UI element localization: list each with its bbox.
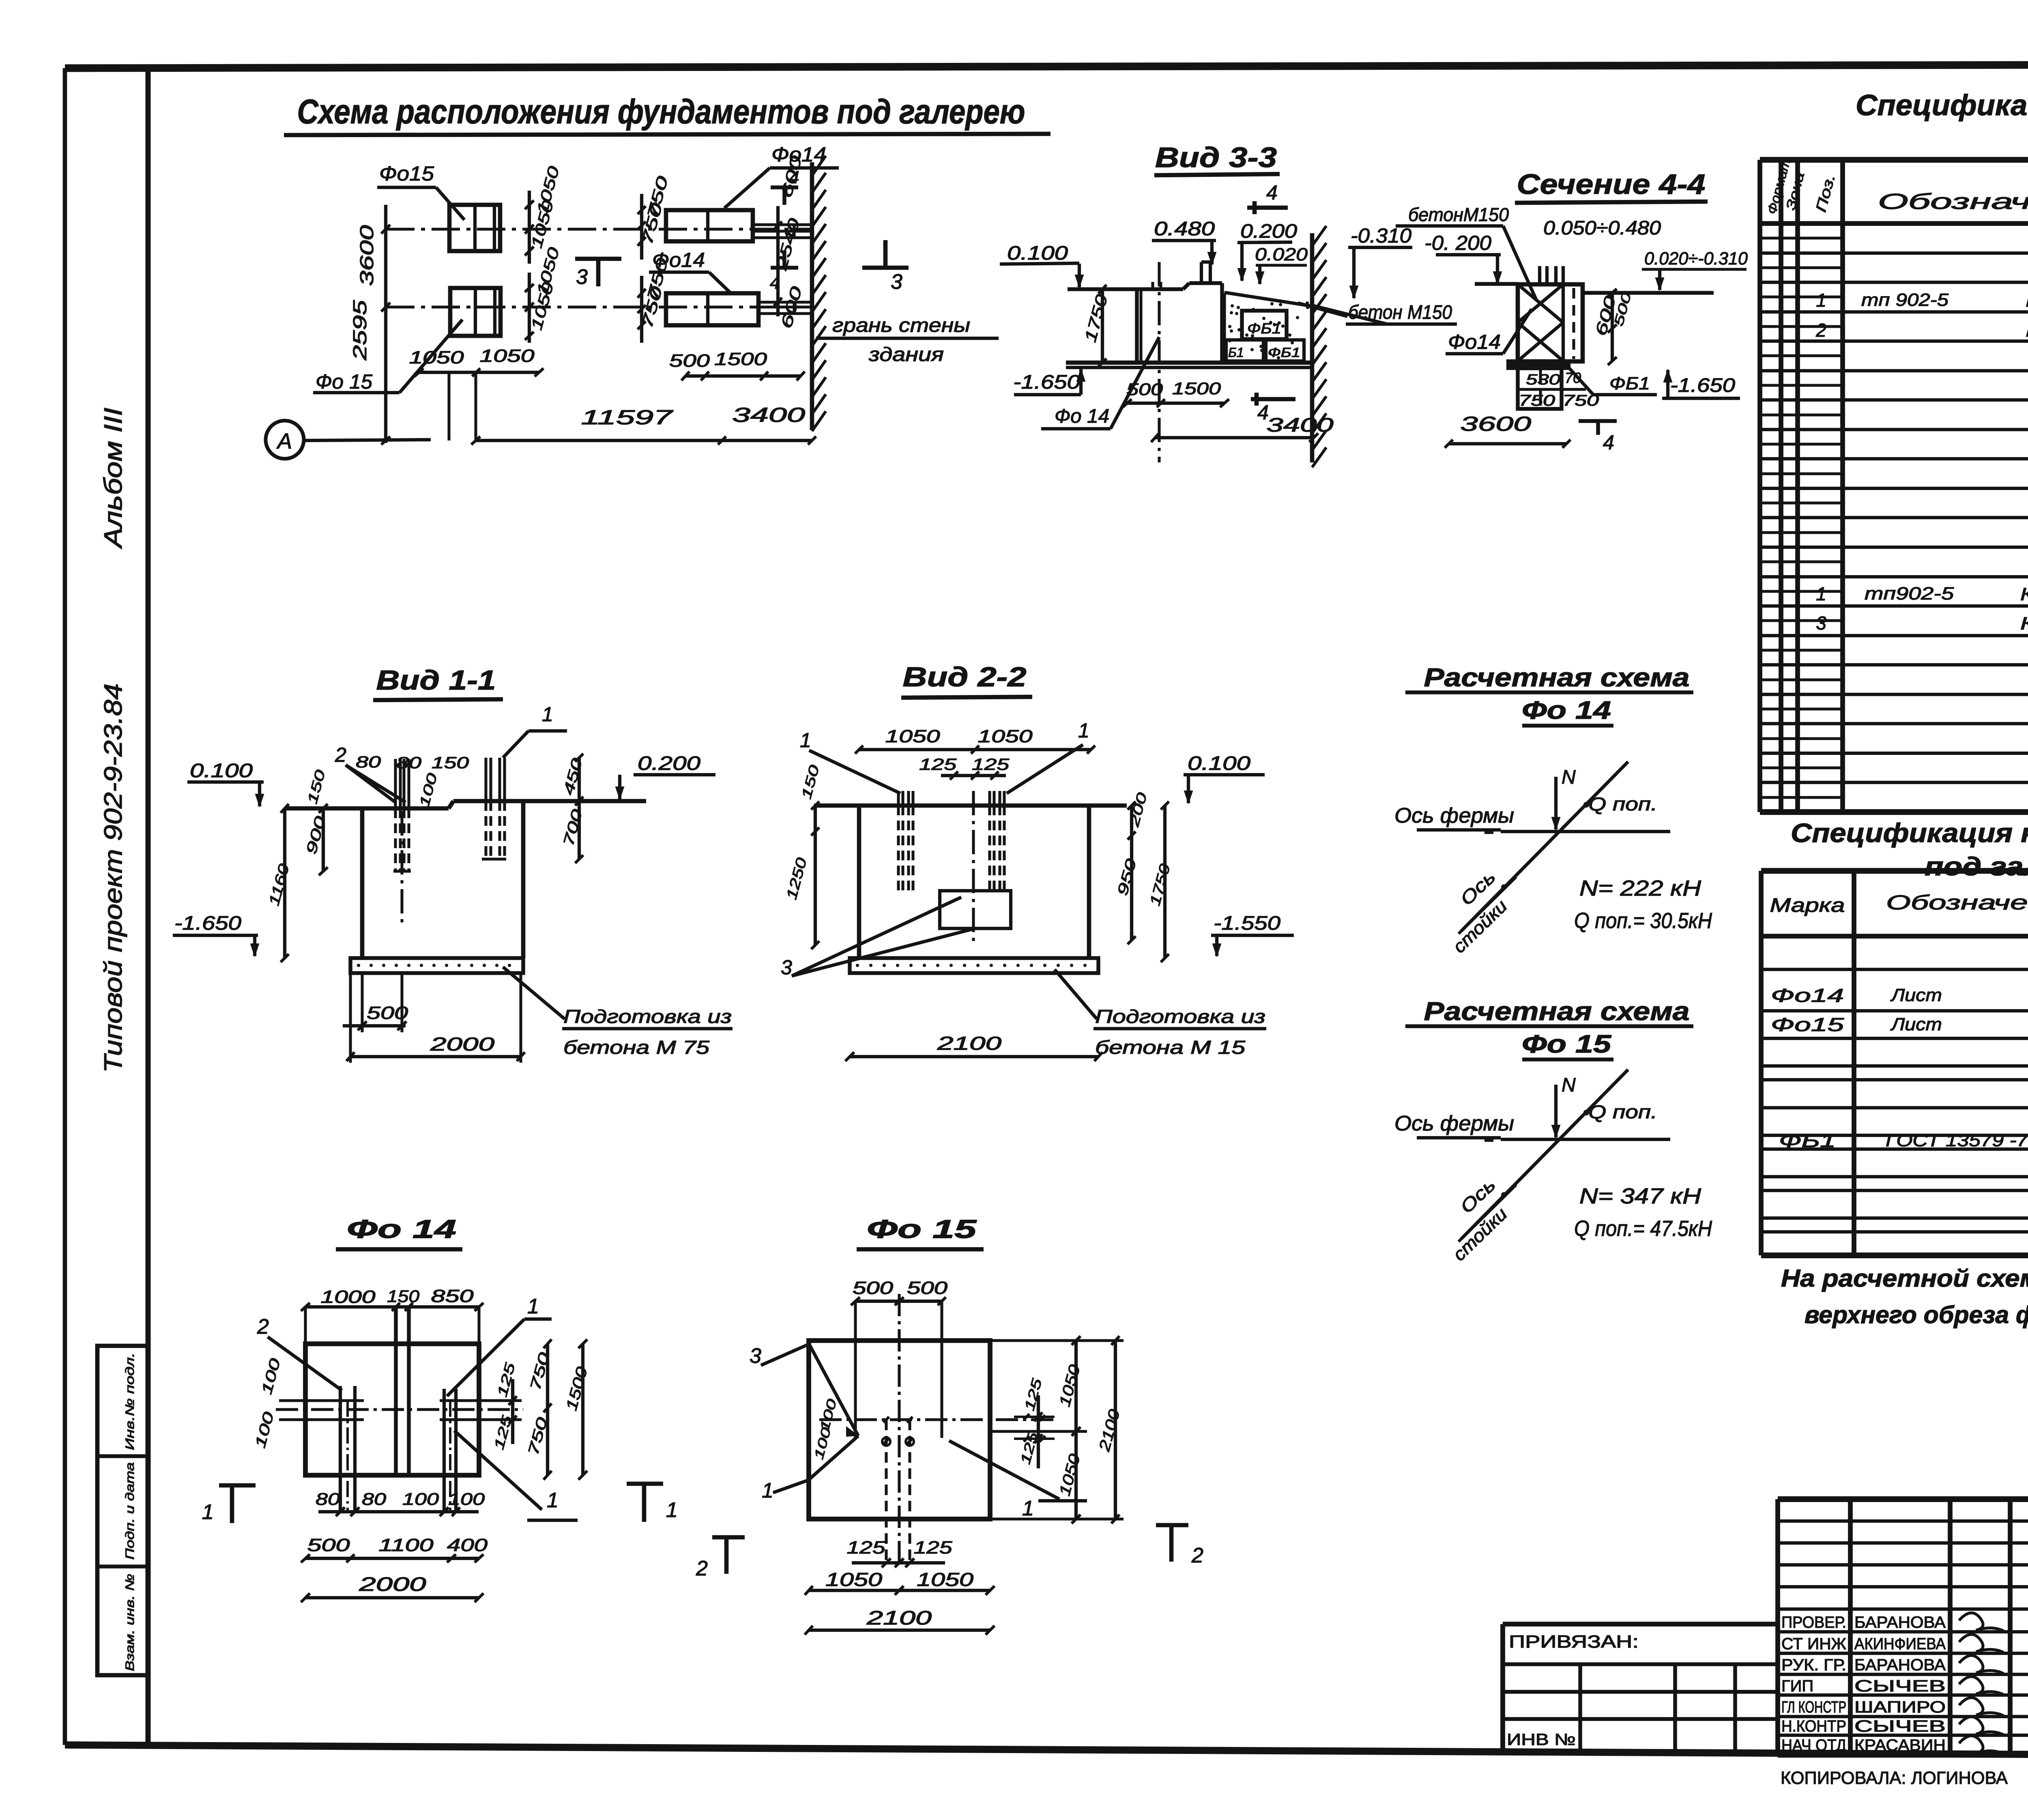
svg-text:Фо15: Фо15 bbox=[1771, 1014, 1844, 1035]
svg-text:1: 1 bbox=[1078, 719, 1089, 742]
svg-text:150: 150 bbox=[387, 1287, 420, 1306]
svg-text:100: 100 bbox=[448, 1489, 485, 1508]
svg-text:500: 500 bbox=[669, 351, 710, 371]
svg-text:Лист: Лист bbox=[1890, 1014, 1942, 1034]
svg-text:0.100: 0.100 bbox=[190, 760, 253, 782]
svg-text:ФБ1: ФБ1 bbox=[1247, 320, 1281, 337]
svg-text:ГОСТ 13579 -78: ГОСТ 13579 -78 bbox=[1886, 1130, 2028, 1150]
svg-text:ПРОВЕР.: ПРОВЕР. bbox=[1781, 1614, 1846, 1631]
svg-text:А: А bbox=[276, 429, 292, 453]
svg-text:-0. 200: -0. 200 bbox=[1424, 232, 1491, 254]
svg-text:400: 400 bbox=[447, 1535, 488, 1555]
svg-text:N: N bbox=[1562, 767, 1576, 788]
svg-text:4: 4 bbox=[789, 168, 799, 187]
svg-text:80: 80 bbox=[362, 1489, 387, 1508]
svg-text:1000: 1000 bbox=[321, 1287, 376, 1307]
svg-text:Обозначение: Обозначение bbox=[1878, 189, 2028, 214]
svg-text:-1.650: -1.650 bbox=[1013, 372, 1080, 393]
svg-text:ГЛ КОНСТР: ГЛ КОНСТР bbox=[1781, 1698, 1846, 1716]
svg-text:1050: 1050 bbox=[917, 1569, 974, 1590]
svg-text:Ось фермы: Ось фермы bbox=[1394, 1112, 1514, 1135]
svg-text:3: 3 bbox=[1816, 612, 1826, 634]
svg-text:БАРАНОВА: БАРАНОВА bbox=[1854, 1614, 1946, 1631]
svg-text:0.020÷-0.310: 0.020÷-0.310 bbox=[1644, 249, 1748, 269]
svg-text:3: 3 bbox=[750, 1344, 761, 1368]
svg-text:3400: 3400 bbox=[1267, 415, 1334, 436]
svg-text:Б1: Б1 bbox=[1228, 345, 1244, 360]
svg-text:бетона М 15: бетона М 15 bbox=[1095, 1037, 1246, 1058]
svg-text:бетонМ150: бетонМ150 bbox=[1408, 204, 1509, 225]
svg-text:БАРАНОВА: БАРАНОВА bbox=[1854, 1656, 1946, 1674]
svg-text:Расчетная схема: Расчетная схема bbox=[1424, 663, 1690, 692]
svg-text:Н.КОНТР: Н.КОНТР bbox=[1781, 1717, 1846, 1735]
svg-text:0.100: 0.100 bbox=[1007, 243, 1068, 264]
svg-text:1: 1 bbox=[527, 1295, 539, 1318]
svg-text:Q поп.= 30.5кН: Q поп.= 30.5кН bbox=[1574, 909, 1712, 933]
svg-text:Обозначение: Обозначение bbox=[1886, 891, 2028, 914]
svg-text:2595: 2595 bbox=[349, 300, 370, 361]
svg-text:3600: 3600 bbox=[356, 225, 377, 286]
svg-text:2100: 2100 bbox=[937, 1033, 1001, 1054]
svg-text:1100: 1100 bbox=[379, 1535, 434, 1555]
svg-text:80: 80 bbox=[316, 1489, 340, 1508]
svg-text:1: 1 bbox=[800, 729, 811, 752]
svg-text:80: 80 bbox=[396, 754, 421, 772]
svg-text:Подготовка из: Подготовка из bbox=[1095, 1006, 1265, 1027]
svg-text:НАЧ ОТД: НАЧ ОТД bbox=[1781, 1736, 1846, 1754]
svg-text:На расчетной схеме дана норма: На расчетной схеме дана нормативная нагр… bbox=[1781, 1265, 2028, 1292]
svg-text:Вид 1-1: Вид 1-1 bbox=[376, 665, 496, 696]
svg-text:КЖИ-МН 8: КЖИ-МН 8 bbox=[2026, 291, 2028, 311]
svg-text:Вид 2-2: Вид 2-2 bbox=[903, 662, 1027, 692]
svg-text:4: 4 bbox=[770, 273, 780, 293]
svg-text:КРАСАВИН: КРАСАВИН bbox=[1854, 1736, 1946, 1754]
svg-text:Подп. и дата: Подп. и дата bbox=[123, 1462, 137, 1560]
svg-text:Q поп.= 47.5кН: Q поп.= 47.5кН bbox=[1574, 1216, 1712, 1241]
svg-text:500: 500 bbox=[367, 1003, 408, 1023]
svg-text:Фо 15: Фо 15 bbox=[867, 1214, 977, 1244]
svg-text:1: 1 bbox=[1022, 1497, 1034, 1520]
svg-text:бетон М150: бетон М150 bbox=[1348, 302, 1452, 323]
svg-text:2: 2 bbox=[257, 1315, 269, 1339]
svg-text:0.020: 0.020 bbox=[1255, 245, 1308, 264]
svg-text:Фо14: Фо14 bbox=[1448, 331, 1501, 353]
svg-text:0.200: 0.200 bbox=[638, 753, 700, 774]
svg-text:100: 100 bbox=[402, 1489, 439, 1508]
svg-text:125: 125 bbox=[919, 756, 957, 774]
svg-text:Вид 3-3: Вид 3-3 bbox=[1155, 142, 1277, 173]
svg-text:Фо 14: Фо 14 bbox=[1055, 406, 1109, 427]
svg-text:1500: 1500 bbox=[1172, 379, 1221, 398]
svg-text:КЖИ- А2: КЖИ- А2 bbox=[2026, 321, 2028, 341]
svg-text:0.480: 0.480 bbox=[1154, 218, 1215, 240]
svg-text:Марка: Марка bbox=[1770, 895, 1845, 916]
svg-text:ПРИВЯЗАН:: ПРИВЯЗАН: bbox=[1509, 1632, 1639, 1652]
svg-text:Ось фермы: Ось фермы bbox=[1394, 804, 1514, 827]
svg-text:850: 850 bbox=[431, 1286, 474, 1306]
svg-text:КОПИРОВАЛА: ЛОГИНОВА: КОПИРОВАЛА: ЛОГИНОВА bbox=[1781, 1768, 2008, 1788]
svg-text:Лист: Лист bbox=[1890, 985, 1942, 1005]
svg-text:0.050÷0.480: 0.050÷0.480 bbox=[1543, 217, 1661, 239]
svg-text:Схема расположения фундаментов: Схема расположения фундаментов под галер… bbox=[297, 92, 1025, 131]
svg-text:1: 1 bbox=[666, 1498, 678, 1522]
svg-text:ФБ1: ФБ1 bbox=[1779, 1130, 1836, 1151]
svg-text:500: 500 bbox=[853, 1278, 894, 1298]
svg-text:ШАПИРО: ШАПИРО bbox=[1854, 1698, 1946, 1716]
svg-text:Типовой проект 902-9-23.84: Типовой проект 902-9-23.84 bbox=[99, 683, 127, 1073]
svg-text:125: 125 bbox=[914, 1538, 953, 1558]
svg-text:11597: 11597 bbox=[581, 406, 674, 429]
svg-text:Фо 14: Фо 14 bbox=[347, 1214, 456, 1244]
svg-text:1: 1 bbox=[1816, 290, 1826, 311]
svg-text:верхнего обреза фундамента.: верхнего обреза фундамента. bbox=[1805, 1301, 2028, 1328]
svg-text:ФБ1: ФБ1 bbox=[1609, 374, 1650, 393]
svg-text:2: 2 bbox=[1191, 1544, 1203, 1567]
svg-text:Спецификация к схеме расположе: Спецификация к схеме расположения фундам… bbox=[1791, 818, 2028, 848]
svg-text:Альбом III: Альбом III bbox=[99, 408, 127, 550]
svg-text:3400: 3400 bbox=[732, 404, 805, 426]
svg-text:750: 750 bbox=[1519, 392, 1555, 409]
svg-text:ФБ1: ФБ1 bbox=[1268, 345, 1300, 360]
svg-text:Подготовка из: Подготовка из bbox=[563, 1006, 732, 1027]
svg-text:150: 150 bbox=[432, 754, 469, 772]
svg-text:Взам. инв. №: Взам. инв. № bbox=[123, 1574, 137, 1671]
svg-text:3600: 3600 bbox=[1460, 413, 1531, 435]
svg-text:1: 1 bbox=[547, 1489, 559, 1512]
svg-text:грань стены: грань стены bbox=[832, 315, 970, 336]
svg-text:1050: 1050 bbox=[409, 348, 464, 367]
svg-text:1: 1 bbox=[202, 1500, 214, 1524]
svg-text:3: 3 bbox=[576, 265, 588, 289]
svg-text:-1.550: -1.550 bbox=[1214, 913, 1280, 934]
svg-text:80: 80 bbox=[356, 753, 381, 771]
svg-text:СТ ИНЖ: СТ ИНЖ bbox=[1781, 1635, 1846, 1653]
svg-text:Спецификация монолитных фундам: Спецификация монолитных фундаментов bbox=[1856, 89, 2028, 122]
svg-text:4: 4 bbox=[1603, 431, 1614, 454]
svg-text:N= 347 кН: N= 347 кН bbox=[1579, 1184, 1701, 1208]
svg-text:3: 3 bbox=[891, 270, 902, 294]
svg-text:ГИП: ГИП bbox=[1781, 1677, 1813, 1695]
svg-text:Q поп.: Q поп. bbox=[1588, 793, 1657, 814]
svg-text:1: 1 bbox=[542, 703, 553, 726]
svg-text:4: 4 bbox=[1266, 181, 1278, 204]
svg-text:1050: 1050 bbox=[480, 346, 535, 366]
svg-text:тп 902-5: тп 902-5 bbox=[1861, 290, 1949, 310]
svg-text:Фо15: Фо15 bbox=[379, 162, 434, 185]
svg-text:тп902-5: тп902-5 bbox=[1865, 584, 1954, 604]
svg-text:2000: 2000 bbox=[359, 1574, 426, 1595]
svg-text:Фо14: Фо14 bbox=[1771, 985, 1844, 1006]
svg-text:-1.650: -1.650 bbox=[174, 913, 241, 934]
svg-text:Сечение 4-4: Сечение 4-4 bbox=[1517, 168, 1706, 200]
svg-text:Фо 14: Фо 14 bbox=[1522, 696, 1611, 724]
svg-text:2100: 2100 bbox=[866, 1607, 932, 1629]
svg-text:1050: 1050 bbox=[885, 726, 941, 746]
svg-text:2: 2 bbox=[696, 1557, 708, 1580]
svg-text:3: 3 bbox=[781, 956, 792, 979]
svg-text:РУК. ГР.: РУК. ГР. bbox=[1781, 1656, 1846, 1674]
svg-text:КЖЦ- А1: КЖЦ- А1 bbox=[2020, 614, 2028, 634]
svg-text:1: 1 bbox=[1816, 583, 1826, 604]
svg-text:500: 500 bbox=[907, 1278, 948, 1298]
svg-text:500: 500 bbox=[307, 1535, 350, 1555]
svg-text:-1.650: -1.650 bbox=[1670, 375, 1735, 396]
svg-text:0.200: 0.200 bbox=[1240, 221, 1297, 242]
svg-text:1050: 1050 bbox=[978, 726, 1033, 746]
svg-text:Фо 15: Фо 15 bbox=[1522, 1030, 1612, 1058]
svg-text:0.100: 0.100 bbox=[1188, 753, 1250, 774]
svg-text:Q поп.: Q поп. bbox=[1588, 1101, 1657, 1122]
svg-text:-0.310: -0.310 bbox=[1351, 224, 1411, 247]
svg-text:под галерею.: под галерею. bbox=[1925, 852, 2028, 881]
svg-text:СЫЧЕВ: СЫЧЕВ bbox=[1854, 1677, 1946, 1695]
svg-text:2000: 2000 bbox=[430, 1034, 494, 1055]
svg-text:1050: 1050 bbox=[825, 1569, 883, 1590]
svg-text:ИНВ №: ИНВ № bbox=[1507, 1731, 1576, 1749]
svg-text:N= 222 кН: N= 222 кН bbox=[1579, 876, 1701, 900]
svg-text:Расчетная схема: Расчетная схема bbox=[1424, 997, 1690, 1026]
svg-text:530: 530 bbox=[1526, 371, 1560, 388]
svg-text:125: 125 bbox=[847, 1538, 886, 1558]
svg-text:Фо 15: Фо 15 bbox=[316, 370, 372, 393]
svg-text:бетона М 75: бетона М 75 bbox=[563, 1037, 710, 1058]
svg-text:1500: 1500 bbox=[714, 349, 767, 369]
svg-text:здания: здания bbox=[868, 344, 944, 365]
svg-text:125: 125 bbox=[972, 756, 1010, 774]
svg-text:2: 2 bbox=[335, 743, 346, 766]
svg-text:2: 2 bbox=[1815, 320, 1826, 341]
svg-text:КЖИ-МН 2: КЖИ-МН 2 bbox=[2020, 584, 2028, 604]
svg-text:СЫЧЕВ: СЫЧЕВ bbox=[1854, 1717, 1946, 1735]
svg-text:АКИНФИЕВА: АКИНФИЕВА bbox=[1854, 1635, 1946, 1653]
svg-text:1: 1 bbox=[762, 1479, 773, 1502]
svg-text:N: N bbox=[1562, 1074, 1576, 1096]
svg-text:Инв.№ подл.: Инв.№ подл. bbox=[123, 1353, 137, 1450]
